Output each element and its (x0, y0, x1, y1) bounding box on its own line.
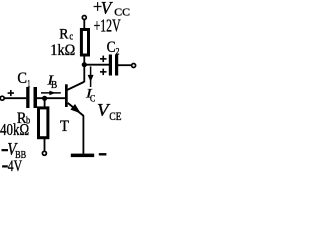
svg-text:4V: 4V (8, 158, 23, 175)
node base junction (42, 96, 47, 101)
svg-text:B: B (51, 80, 58, 91)
label -4V (2, 165, 8, 167)
svg-text:C: C (17, 69, 27, 87)
svg-text:C: C (90, 93, 95, 103)
label -VBB (2, 149, 9, 151)
terminal input (0, 96, 4, 100)
transistor Q1 collector lead (67, 82, 84, 90)
capacitor C2 (109, 55, 112, 76)
wire C1 to base (37, 97, 65, 99)
wire input to C1 (5, 97, 27, 99)
wire emitter down to ground (82, 116, 84, 154)
transistor Q1 emitter arrow (70, 104, 80, 113)
svg-text:c: c (69, 31, 73, 43)
terminal output (132, 64, 136, 68)
wire collector node to C2 (84, 64, 109, 66)
wire base node down to Rb (44, 98, 46, 107)
svg-text:2: 2 (116, 46, 120, 57)
transistor Q1 base bar (65, 84, 68, 107)
capacitor C1 (26, 87, 29, 108)
svg-text:1kΩ: 1kΩ (50, 42, 75, 59)
current arrow IB (41, 92, 61, 94)
svg-text:40kΩ: 40kΩ (0, 120, 29, 139)
svg-text:R: R (59, 27, 69, 43)
label minus at ground (99, 153, 107, 155)
transistor Q1 emitter lead (68, 103, 84, 116)
polarity mark C1 (8, 92, 14, 94)
resistor Rb (39, 108, 48, 138)
svg-text:T: T (60, 116, 69, 135)
terminal -VBB (42, 151, 46, 155)
ground (71, 154, 94, 158)
wire C2 to output terminal (118, 64, 131, 66)
wire Rc to collector node (83, 56, 85, 82)
svg-text:1: 1 (27, 79, 30, 90)
polarity marks C2 (100, 58, 107, 60)
resistor Rc (81, 30, 88, 56)
svg-text:CE: CE (109, 111, 121, 123)
node collector junction (82, 62, 87, 67)
svg-text:+12V: +12V (94, 15, 121, 35)
svg-text:C: C (107, 39, 116, 56)
wire VCC terminal to Rc (83, 20, 85, 29)
wire Rb to VBB terminal (44, 139, 46, 151)
terminal +VCC (82, 16, 86, 20)
current arrow IC (90, 66, 92, 87)
